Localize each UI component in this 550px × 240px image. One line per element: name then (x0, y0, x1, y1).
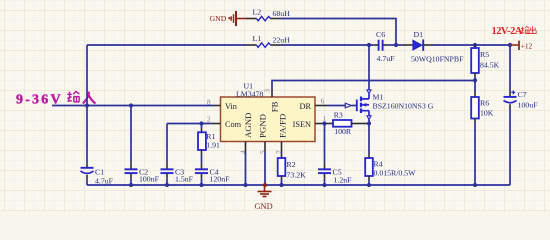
gate input arrow (345, 103, 351, 108)
svg-text:C6: C6 (376, 30, 385, 39)
svg-text:4.7uF: 4.7uF (95, 176, 114, 185)
capacitor C3 (161, 163, 194, 183)
junction output/R5 (473, 43, 477, 47)
svg-text:0.015R/0.5W: 0.015R/0.5W (374, 168, 417, 177)
svg-text:100R: 100R (334, 127, 352, 136)
junction Com/R1 (199, 121, 203, 125)
svg-text:L1: L1 (253, 34, 262, 43)
svg-text:ISEN: ISEN (293, 120, 311, 129)
wire FB net (272, 81, 475, 89)
wire C5 column (324, 124, 326, 186)
glyph 入 (83, 92, 96, 104)
wire R5 to R6 (474, 73, 476, 78)
junction FB divider (473, 78, 477, 82)
junction gnd R4 (367, 183, 371, 187)
wire R5 column top (474, 45, 476, 48)
capacitor C5 (318, 163, 352, 184)
svg-text:R3: R3 (334, 110, 343, 119)
pin 5 (259, 142, 267, 155)
svg-text:3: 3 (264, 89, 272, 93)
junction gnd C5 (322, 183, 326, 187)
wire L1 to C6 (281, 44, 374, 46)
capacitor C2 (125, 163, 160, 183)
svg-text:R2: R2 (287, 160, 296, 169)
pin 1 (315, 115, 327, 124)
pin 6 (315, 98, 327, 106)
junction source/R3/R4 (367, 121, 371, 125)
pin 4 (240, 142, 248, 155)
junction L2/D1 node (394, 43, 398, 47)
svg-text:GND: GND (255, 202, 273, 211)
wire C6 to D1 (387, 44, 403, 46)
svg-text:GND: GND (210, 14, 227, 23)
junction gnd pin4 (243, 183, 247, 187)
svg-text:8: 8 (207, 99, 211, 107)
junction gnd C3 (165, 183, 169, 187)
glyph 出 (529, 26, 536, 33)
wire pin7 to R2 (281, 152, 283, 154)
junction Vin/C1 (85, 103, 89, 107)
resistor R4 (365, 158, 416, 185)
junction gnd C2 (129, 183, 133, 187)
wire pin5 to ground (264, 152, 266, 186)
svg-text:84.5K: 84.5K (480, 61, 500, 70)
svg-text:FA/FD: FA/FD (277, 114, 287, 138)
wire L2 net (281, 19, 397, 46)
svg-text:D1: D1 (414, 30, 424, 39)
svg-text:12V-2A: 12V-2A (492, 26, 523, 37)
junction gnd pin5 (263, 183, 267, 187)
pin 3 (264, 89, 273, 98)
junction gnd R6 (473, 183, 477, 187)
IC U1 LM3478 (221, 82, 316, 142)
svg-text:FB: FB (269, 101, 279, 112)
label 9-36V input (16, 91, 96, 107)
svg-text:1.2nF: 1.2nF (334, 175, 353, 184)
wire Com net (167, 123, 211, 125)
wire C2 column (130, 106, 132, 186)
ground symbol GND (255, 185, 273, 211)
junction Vin/C2 (129, 103, 133, 107)
wire source to ISEN (368, 119, 370, 123)
svg-text:120nF: 120nF (210, 175, 231, 184)
svg-text:4.7uF: 4.7uF (377, 54, 396, 63)
svg-text:R5: R5 (480, 50, 489, 59)
junction output/C7 (508, 43, 512, 47)
resistor R3 (333, 110, 368, 136)
svg-text:PGND: PGND (257, 114, 267, 138)
svg-text:+12: +12 (521, 41, 533, 50)
pin 8 (207, 99, 221, 107)
svg-text:Vin: Vin (225, 102, 238, 111)
svg-text:Com: Com (225, 120, 242, 129)
svg-text:4: 4 (240, 150, 248, 154)
capacitor C7 (504, 45, 539, 185)
wire input rail Vin (52, 105, 214, 107)
svg-text:100nF: 100nF (139, 175, 160, 184)
svg-text:LM3478: LM3478 (236, 89, 263, 98)
pin 7 (275, 142, 283, 155)
resistor R6 (471, 97, 494, 119)
svg-text:10K: 10K (480, 109, 494, 118)
svg-text:C7: C7 (518, 90, 527, 99)
svg-text:6: 6 (321, 98, 325, 106)
inductor L2 (246, 8, 290, 21)
glyph 输 (521, 26, 529, 33)
wire ground rail (87, 184, 510, 186)
wire DR to gate (327, 105, 345, 107)
wire left input vertical (86, 45, 88, 163)
junction gnd C4 (199, 183, 203, 187)
wire R6 to ground (474, 119, 476, 124)
wire source to R4 (368, 124, 370, 154)
transistor M1 (357, 90, 434, 120)
svg-text:50WQ10FNPBF: 50WQ10FNPBF (411, 54, 464, 63)
svg-text:9-36V: 9-36V (16, 92, 63, 107)
glyph 输 (67, 91, 79, 101)
wire ISEN to R3 (326, 123, 333, 125)
capacitor C6 (374, 30, 395, 63)
label 12V-2A output (492, 26, 537, 37)
capacitor C4 (195, 163, 230, 185)
wire output rail (433, 44, 510, 46)
junction gnd R2 (279, 183, 283, 187)
svg-text:1.91: 1.91 (206, 140, 220, 149)
svg-text:AGND: AGND (243, 113, 253, 138)
wire pin4 to ground (245, 152, 247, 186)
svg-text:2: 2 (207, 116, 211, 124)
pin 2 (207, 116, 221, 124)
svg-text:R6: R6 (480, 99, 489, 108)
resistor R2 (278, 158, 306, 185)
wire drain (368, 45, 370, 90)
svg-text:L2: L2 (253, 8, 262, 17)
svg-text:1.5nF: 1.5nF (175, 175, 194, 184)
svg-text:C1: C1 (95, 167, 104, 176)
svg-text:BSZ160N10NS3 G: BSZ160N10NS3 G (373, 101, 434, 110)
svg-text:22uH: 22uH (273, 36, 291, 45)
junction switch node (367, 43, 371, 47)
resistor R1 (198, 124, 220, 164)
inductor L1 (246, 34, 290, 47)
svg-text:73.2K: 73.2K (287, 170, 307, 179)
wire input top (87, 44, 246, 46)
svg-text:68uH: 68uH (273, 9, 291, 18)
power port GND top (210, 11, 247, 26)
diode D1 (403, 30, 464, 64)
svg-text:M1: M1 (373, 92, 384, 101)
junction ISEN/C5 (322, 121, 326, 125)
svg-text:100uF: 100uF (518, 100, 539, 109)
power port +12 (510, 41, 533, 51)
capacitor C1 (81, 163, 114, 185)
svg-text:DR: DR (299, 102, 311, 111)
wire C3 column (166, 124, 168, 186)
resistor R5 (471, 48, 499, 73)
svg-text:R4: R4 (374, 159, 383, 168)
